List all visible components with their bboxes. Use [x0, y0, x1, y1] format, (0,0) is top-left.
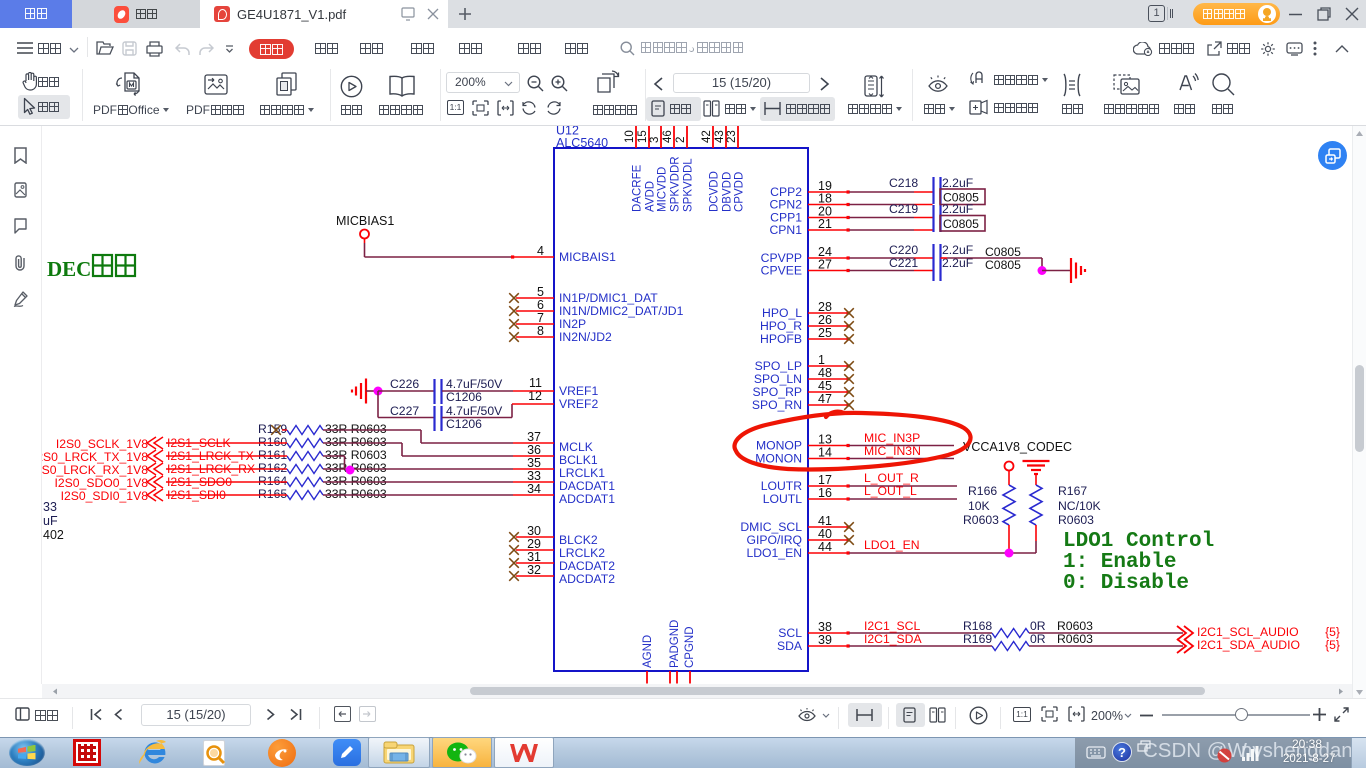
svg-text:{5}: {5}: [1325, 625, 1340, 639]
svg-text:0R: 0R: [1030, 632, 1046, 646]
svg-text:VREF1: VREF1: [559, 384, 599, 398]
svg-text:R165: R165: [258, 487, 287, 501]
svg-text:R0603: R0603: [1058, 513, 1094, 527]
svg-text:I2S0_SDI0_1V8: I2S0_SDI0_1V8: [61, 489, 149, 503]
svg-text:2.2uF: 2.2uF: [942, 243, 973, 257]
svg-text:28: 28: [818, 300, 832, 314]
svg-text:uF: uF: [43, 514, 58, 528]
svg-text:DACRFE: DACRFE: [632, 164, 644, 212]
svg-text:SPKVDDL: SPKVDDL: [683, 158, 695, 212]
svg-text:CPN2: CPN2: [769, 198, 802, 212]
svg-text:2.2uF: 2.2uF: [942, 202, 973, 216]
svg-text:48: 48: [818, 366, 832, 380]
svg-text:DEC: DEC: [47, 257, 91, 281]
svg-text:MIC_IN3P: MIC_IN3P: [864, 431, 920, 445]
svg-text:26: 26: [818, 313, 832, 327]
svg-text:27: 27: [818, 258, 832, 272]
svg-text:2.2uF: 2.2uF: [942, 176, 973, 190]
svg-text:R0603: R0603: [1057, 619, 1093, 633]
svg-text:C227: C227: [390, 404, 419, 418]
svg-text:{5}: {5}: [1325, 638, 1340, 652]
svg-text:R167: R167: [1058, 484, 1087, 498]
svg-text:33R R0603: 33R R0603: [325, 461, 387, 475]
svg-text:41: 41: [818, 514, 832, 528]
svg-text:2: 2: [675, 137, 687, 143]
svg-text:SDA: SDA: [777, 639, 803, 653]
svg-text:CPN1: CPN1: [769, 223, 802, 237]
svg-text:I2S0_LRCK_TX_1V8: I2S0_LRCK_TX_1V8: [42, 450, 148, 464]
svg-text:C218: C218: [889, 176, 918, 190]
svg-text:I2S1_SDI0: I2S1_SDI0: [167, 488, 226, 502]
svg-text:21: 21: [818, 217, 832, 231]
svg-text:5: 5: [537, 285, 544, 299]
svg-text:MICBIAS1: MICBIAS1: [336, 214, 394, 228]
svg-text:15: 15: [637, 130, 649, 143]
svg-text:C221: C221: [889, 256, 918, 270]
svg-text:33: 33: [43, 500, 57, 514]
svg-text:LOUTL: LOUTL: [763, 492, 803, 506]
svg-text:R161: R161: [258, 448, 287, 462]
svg-text:C1206: C1206: [446, 417, 482, 431]
svg-text:14: 14: [818, 446, 832, 460]
svg-text:10K: 10K: [968, 499, 990, 513]
svg-text:L_OUT_L: L_OUT_L: [864, 484, 917, 498]
svg-text:DACDAT2: DACDAT2: [559, 559, 615, 573]
svg-text:3: 3: [649, 137, 661, 143]
svg-text:HPO_L: HPO_L: [762, 306, 802, 320]
svg-text:MCLK: MCLK: [559, 440, 593, 454]
svg-text:IN2P: IN2P: [559, 317, 586, 331]
svg-text:6: 6: [537, 298, 544, 312]
svg-text:DACDAT1: DACDAT1: [559, 479, 615, 493]
svg-text:40: 40: [818, 527, 832, 541]
svg-text:R162: R162: [258, 461, 287, 475]
svg-text:C219: C219: [889, 202, 918, 216]
svg-text:42: 42: [701, 130, 713, 143]
svg-text:16: 16: [818, 486, 832, 500]
svg-text:LRCLK2: LRCLK2: [559, 546, 605, 560]
svg-text:38: 38: [818, 620, 832, 634]
svg-text:CPGND: CPGND: [684, 626, 696, 668]
svg-text:4.7uF/50V: 4.7uF/50V: [446, 377, 503, 391]
svg-text:0R: 0R: [1030, 619, 1046, 633]
svg-text:R0603: R0603: [963, 513, 999, 527]
svg-text:LDO1 Control: LDO1 Control: [1063, 530, 1214, 553]
svg-text:33R R0603: 33R R0603: [325, 448, 387, 462]
svg-text:SPO_RN: SPO_RN: [752, 398, 802, 412]
svg-text:29: 29: [527, 537, 541, 551]
svg-text:C226: C226: [390, 377, 419, 391]
svg-text:R0603: R0603: [1057, 632, 1093, 646]
svg-text:VREF2: VREF2: [559, 397, 599, 411]
svg-text:DCVDD: DCVDD: [709, 171, 721, 212]
svg-text:45: 45: [818, 379, 832, 393]
svg-text:MICBAIS1: MICBAIS1: [559, 250, 616, 264]
svg-text:33R R0603: 33R R0603: [325, 487, 387, 501]
svg-text:SPO_LP: SPO_LP: [755, 359, 802, 373]
svg-text:33R R0603: 33R R0603: [325, 474, 387, 488]
svg-text:C0805: C0805: [985, 258, 1021, 272]
svg-text:DMIC_SCL: DMIC_SCL: [740, 520, 802, 534]
svg-text:I2C1_SDA: I2C1_SDA: [864, 632, 922, 646]
svg-text:BCLK1: BCLK1: [559, 453, 598, 467]
svg-text:47: 47: [818, 392, 832, 406]
svg-text:BLCK2: BLCK2: [559, 533, 598, 547]
svg-text:I2S1_SCLK: I2S1_SCLK: [167, 436, 231, 450]
svg-text:31: 31: [527, 550, 541, 564]
svg-text:L_OUT_R: L_OUT_R: [864, 471, 919, 485]
svg-text:1: Enable: 1: Enable: [1063, 551, 1176, 574]
svg-text:SPO_LN: SPO_LN: [754, 372, 802, 386]
svg-text:NC/10K: NC/10K: [1058, 499, 1101, 513]
svg-text:GIPO/IRQ: GIPO/IRQ: [746, 533, 802, 547]
svg-text:MICVDD: MICVDD: [657, 167, 669, 212]
svg-text:LDO1_EN: LDO1_EN: [746, 546, 802, 560]
svg-text:SPO_RP: SPO_RP: [753, 385, 802, 399]
svg-text:36: 36: [527, 443, 541, 457]
svg-text:IN1P/DMIC1_DAT: IN1P/DMIC1_DAT: [559, 291, 658, 305]
svg-text:34: 34: [527, 482, 541, 496]
svg-text:17: 17: [818, 473, 832, 487]
svg-text:SPKVDDR: SPKVDDR: [670, 156, 682, 212]
svg-text:PADGND: PADGND: [669, 620, 681, 668]
svg-text:I2C1_SDA_AUDIO: I2C1_SDA_AUDIO: [1197, 638, 1300, 652]
svg-text:R160: R160: [258, 435, 287, 449]
svg-text:33R R0603: 33R R0603: [325, 422, 387, 436]
svg-text:11: 11: [529, 376, 542, 390]
svg-text:CPVDD: CPVDD: [734, 172, 746, 212]
svg-text:I2S1_SDO0: I2S1_SDO0: [167, 475, 232, 489]
svg-text:I2S0_LRCK_RX_1V8: I2S0_LRCK_RX_1V8: [42, 463, 148, 477]
svg-text:ALC5640: ALC5640: [556, 136, 608, 150]
svg-text:R164: R164: [258, 474, 287, 488]
svg-text:39: 39: [818, 633, 832, 647]
svg-text:ADCDAT2: ADCDAT2: [559, 572, 615, 586]
svg-text:25: 25: [818, 326, 832, 340]
svg-text:MONOP: MONOP: [756, 439, 802, 453]
svg-text:37: 37: [527, 430, 541, 444]
svg-text:IN2N/JD2: IN2N/JD2: [559, 330, 612, 344]
svg-text:46: 46: [662, 130, 674, 143]
svg-text:I2S0_SDO0_1V8: I2S0_SDO0_1V8: [54, 476, 148, 490]
svg-text:33R R0603: 33R R0603: [325, 435, 387, 449]
svg-text:C0805: C0805: [985, 245, 1021, 259]
svg-text:R166: R166: [968, 484, 997, 498]
svg-text:0: Disable: 0: Disable: [1063, 572, 1189, 595]
svg-text:32: 32: [527, 563, 541, 577]
svg-text:LOUTR: LOUTR: [761, 479, 803, 493]
svg-text:8: 8: [537, 324, 544, 338]
svg-text:C0805: C0805: [943, 217, 979, 231]
svg-text:23: 23: [726, 130, 738, 143]
svg-text:7: 7: [537, 311, 544, 325]
svg-text:C1206: C1206: [446, 390, 482, 404]
svg-text:I2S1_LRCK_TX: I2S1_LRCK_TX: [167, 449, 254, 463]
svg-text:35: 35: [527, 456, 541, 470]
svg-text:C220: C220: [889, 243, 918, 257]
svg-text:AGND: AGND: [642, 635, 654, 668]
svg-text:33: 33: [527, 469, 541, 483]
svg-text:402: 402: [43, 528, 64, 542]
svg-text:43: 43: [714, 130, 726, 143]
svg-text:CPVEE: CPVEE: [761, 264, 802, 278]
svg-text:R169: R169: [963, 632, 992, 646]
svg-text:10: 10: [624, 130, 636, 143]
svg-text:I2C1_SCL: I2C1_SCL: [864, 619, 920, 633]
svg-text:LDO1_EN: LDO1_EN: [864, 538, 920, 552]
svg-text:R168: R168: [963, 619, 992, 633]
svg-text:SCL: SCL: [778, 626, 802, 640]
svg-text:1: 1: [818, 353, 825, 367]
svg-text:I2S0_SCLK_1V8: I2S0_SCLK_1V8: [56, 437, 148, 451]
svg-text:LRCLK1: LRCLK1: [559, 466, 605, 480]
svg-text:I2C1_SCL_AUDIO: I2C1_SCL_AUDIO: [1197, 625, 1299, 639]
svg-text:VCCA1V8_CODEC: VCCA1V8_CODEC: [963, 440, 1072, 454]
svg-text:DBVDD: DBVDD: [722, 172, 734, 212]
svg-text:13: 13: [818, 433, 832, 447]
svg-text:HPOFB: HPOFB: [760, 332, 802, 346]
svg-text:44: 44: [818, 540, 832, 554]
svg-text:MIC_IN3N: MIC_IN3N: [864, 444, 921, 458]
svg-text:4.7uF/50V: 4.7uF/50V: [446, 404, 503, 418]
svg-text:AVDD: AVDD: [645, 181, 657, 212]
svg-text:I2S1_LRCK_RX: I2S1_LRCK_RX: [167, 462, 255, 476]
svg-text:30: 30: [527, 524, 541, 538]
svg-text:18: 18: [818, 192, 832, 206]
svg-text:ADCDAT1: ADCDAT1: [559, 492, 615, 506]
svg-text:4: 4: [537, 244, 544, 258]
svg-text:IN1N/DMIC2_DAT/JD1: IN1N/DMIC2_DAT/JD1: [559, 304, 684, 318]
svg-text:HPO_R: HPO_R: [760, 319, 802, 333]
